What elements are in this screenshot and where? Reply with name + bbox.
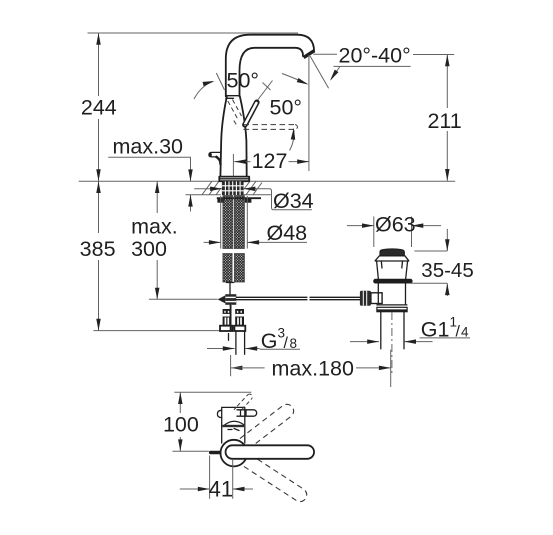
drain upper body <box>377 261 408 279</box>
top view: cartridge housing <box>222 407 245 443</box>
handle axis reference line <box>216 73 224 90</box>
dimension 35-45 arrows <box>446 229 448 251</box>
dimension 211 arrows <box>445 55 450 67</box>
dimension 385 bottom reference line <box>93 330 219 332</box>
supply hose outer boundary left <box>220 196 222 249</box>
pull rod pin below clamp <box>229 305 232 310</box>
svg-text:max.30: max.30 <box>113 135 184 159</box>
top view: solid pin rod <box>237 410 257 416</box>
drain knob connector <box>371 293 382 304</box>
dimension max.300 vertical line <box>156 181 158 213</box>
dimension 35-45 bottom reference line <box>411 282 448 284</box>
top view: body circle <box>221 440 248 467</box>
pull rod clamp block <box>225 294 236 305</box>
label 20-40 right line <box>413 54 454 56</box>
svg-text:4: 4 <box>461 325 469 340</box>
drain collar band <box>377 307 407 311</box>
top view: cartridge clip <box>217 410 221 417</box>
dimension Ø48 arrows <box>204 241 221 243</box>
hose connector nut left <box>220 309 233 331</box>
supply hose upper right <box>234 196 244 249</box>
supply hose outer boundary right <box>246 196 248 249</box>
spout aerator tip face <box>304 51 315 58</box>
supply hose lower right <box>234 254 244 283</box>
supply hose upper left <box>223 196 233 249</box>
drain tailpipe <box>380 312 382 349</box>
dimension Ø63 arrows <box>347 225 374 227</box>
svg-text:50°: 50° <box>270 95 303 119</box>
dimension Ø34 arrows <box>194 188 222 190</box>
pop-up rod knob hook <box>216 156 221 165</box>
dimension max.180 right extension <box>390 350 392 387</box>
top view: lever rod dashed down <box>234 449 309 504</box>
label G3/8 underline <box>260 348 300 350</box>
drain knob <box>360 291 371 306</box>
svg-text:max.: max. <box>131 215 178 239</box>
dimension 211 vertical line <box>446 55 448 109</box>
mounting nut left <box>217 199 224 203</box>
top view: cartridge band <box>223 425 245 427</box>
drain seal ring <box>373 279 412 284</box>
top view: 100 bottom reference line <box>173 450 209 452</box>
dimension Ø63 extension lines <box>373 217 375 248</box>
svg-text:385: 385 <box>80 237 116 261</box>
dimension max.30 lower arrow <box>190 195 192 212</box>
supply hose lower left <box>223 254 232 283</box>
spout angle line 40deg <box>310 56 329 88</box>
mounting deck top line <box>79 180 456 182</box>
pull rod vertical pin <box>229 282 231 295</box>
svg-text:100: 100 <box>163 413 199 437</box>
top view: dashed pin rod <box>234 394 252 410</box>
drain lower body <box>377 284 407 305</box>
svg-text:8: 8 <box>290 336 298 351</box>
dimension max.300 arrows <box>155 181 160 193</box>
dimension max.30 arrow <box>188 169 193 181</box>
dimension 385 vertical line <box>98 181 100 233</box>
dimension 385 arrows <box>96 181 101 193</box>
mounting nut right <box>245 199 252 203</box>
svg-text:max.180: max.180 <box>272 356 355 380</box>
G3/8 thread tube <box>235 331 237 354</box>
dimension max.180 left extension <box>230 355 232 376</box>
dimension max.30 leader line <box>108 157 190 181</box>
pull rod through nuts <box>230 305 232 331</box>
mounting washer bar <box>217 197 261 199</box>
svg-text:244: 244 <box>81 96 117 120</box>
svg-text:Ø63: Ø63 <box>375 213 416 237</box>
dimension max.180 arrows <box>231 366 243 371</box>
dimension 100 arrows <box>178 392 183 404</box>
mounting deck bottom line <box>186 194 222 196</box>
svg-text:50°: 50° <box>227 68 260 92</box>
threaded shank through deck <box>222 181 244 195</box>
dimension 244 arrows <box>96 33 101 45</box>
svg-text:Ø48: Ø48 <box>267 221 308 245</box>
svg-text:211: 211 <box>427 109 461 133</box>
dimension G1 1/4 arrows <box>350 341 379 343</box>
dimension 244 vertical line <box>98 33 100 96</box>
svg-text:Ø34: Ø34 <box>273 189 314 213</box>
horizontal pop-up rod left segment <box>236 296 307 298</box>
lever arc arrow <box>290 130 294 151</box>
handle lever dashed closed position <box>228 100 242 128</box>
dimension 127 line and arrows <box>234 161 250 163</box>
svg-text:35-45: 35-45 <box>421 259 473 282</box>
svg-text:127: 127 <box>252 149 288 173</box>
svg-text:20°-40°: 20°-40° <box>339 44 411 68</box>
label G1 1/4 underline <box>420 337 470 339</box>
deck hatching right <box>244 181 262 195</box>
top view: cartridge dome <box>224 421 244 425</box>
spout outer profile <box>226 35 314 97</box>
dimension 35-45 top reference line <box>414 250 447 252</box>
lever axis tick <box>263 83 271 91</box>
drain flange <box>375 256 409 261</box>
top view: left rod <box>209 451 222 455</box>
pop-up rod knob on body <box>209 152 221 157</box>
handle arc arrow left <box>194 82 213 99</box>
dimension 41 arrows <box>180 488 210 490</box>
drain centerline <box>391 312 393 376</box>
dimension Ø34 leader <box>260 189 312 210</box>
faucet body neck joint <box>226 95 239 97</box>
dimension 100 vertical line <box>179 392 181 413</box>
svg-text:41: 41 <box>209 477 233 502</box>
label 20-40 leader arrow <box>331 66 340 79</box>
top view: lever rod solid <box>226 445 315 459</box>
deck hatching left <box>202 181 221 194</box>
handle lever dash-dot horizontal position <box>244 125 298 130</box>
faucet body left edge <box>220 96 226 176</box>
handle lever rod <box>245 102 257 125</box>
horizontal pop-up rod right segment <box>310 296 362 298</box>
top view: cartridge marks <box>228 429 239 431</box>
base flange <box>219 177 249 182</box>
horizontal pop-up rod reference line <box>149 298 218 300</box>
label 20-40 underline <box>334 65 411 67</box>
left tube stub <box>228 334 230 341</box>
dimension 41 extension lines <box>209 456 211 499</box>
pull rod clamp screw <box>218 295 226 303</box>
hose connector nut right <box>234 309 245 331</box>
faucet body right edge <box>240 96 247 176</box>
svg-text:300: 300 <box>131 237 167 261</box>
spout outlet extension line <box>308 55 310 171</box>
spout swivel arc arrow <box>282 74 307 84</box>
top view: 100 top reference line <box>174 391 251 393</box>
dimension 244 top reference line <box>88 32 299 34</box>
lever axis extension line <box>257 81 273 102</box>
faucet body centerline <box>232 154 234 177</box>
spout inner profile <box>240 48 304 97</box>
label 20-40 leader horizontal <box>313 53 337 55</box>
dimension G3/8 arrows <box>207 348 235 350</box>
drain plug cap <box>380 249 404 256</box>
top view: lever rod dashed up <box>232 402 296 455</box>
